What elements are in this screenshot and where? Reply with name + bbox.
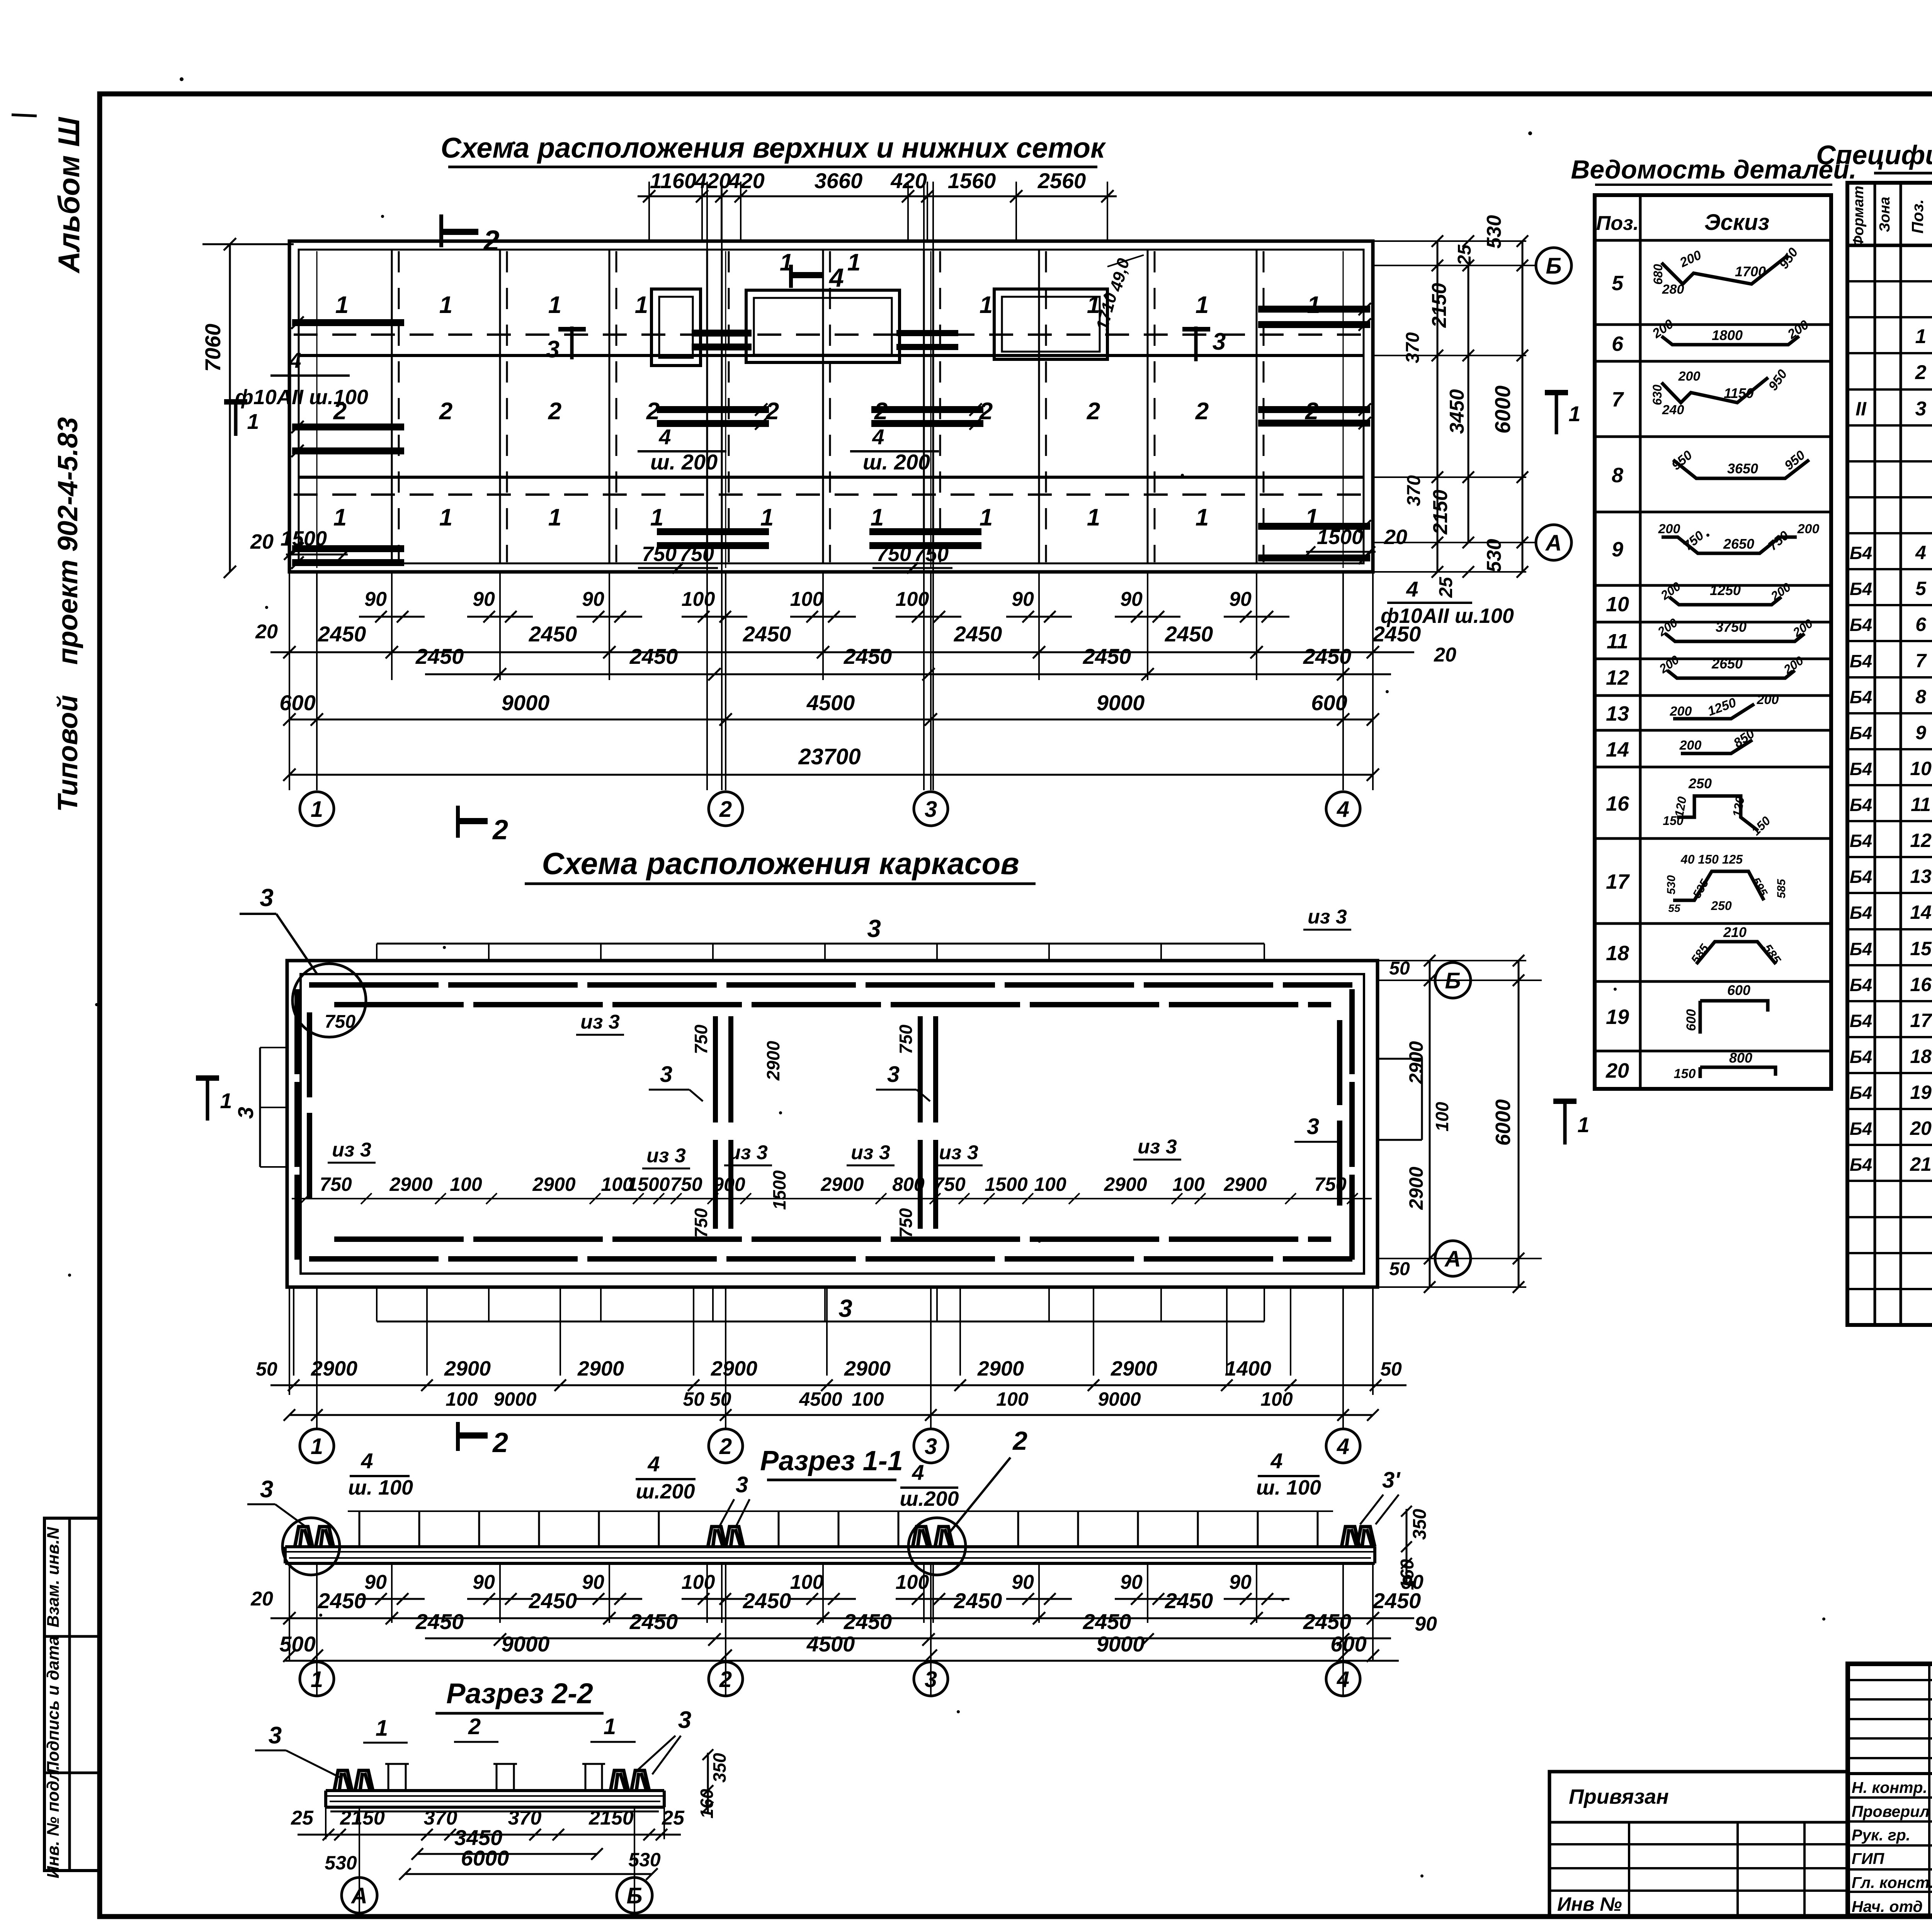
svg-text:Инв №: Инв № (1557, 1893, 1622, 1915)
svg-text:2: 2 (1915, 361, 1927, 384)
svg-text:2900: 2900 (1405, 1041, 1427, 1084)
svg-text:2450: 2450 (743, 1588, 791, 1613)
section mark 2 below plan 2 (456, 1422, 460, 1451)
svg-text:4: 4 (1337, 1434, 1349, 1459)
svg-text:1: 1 (439, 504, 452, 531)
svg-text:200: 200 (1678, 369, 1701, 384)
svg-text:100: 100 (896, 588, 929, 611)
label 3 with T mark right (1194, 327, 1198, 361)
svg-text:1: 1 (1577, 1112, 1589, 1137)
svg-text:600: 600 (1311, 690, 1347, 715)
svg-text:6: 6 (1612, 332, 1624, 355)
svg-text:17: 17 (1910, 1010, 1932, 1031)
section 2-2 chairs (334, 1770, 352, 1791)
svg-text:2450: 2450 (629, 644, 678, 668)
svg-text:4: 4 (289, 348, 301, 372)
svg-text:3: 3 (546, 336, 560, 363)
svg-text:4: 4 (1337, 797, 1349, 822)
svg-text:2: 2 (468, 1714, 481, 1739)
svg-text:2: 2 (492, 1427, 508, 1458)
svg-text:2: 2 (483, 224, 499, 257)
svg-text:4: 4 (1337, 1667, 1349, 1692)
svg-text:2450: 2450 (954, 622, 1002, 646)
svg-text:100: 100 (450, 1173, 482, 1195)
svg-text:2900: 2900 (977, 1357, 1024, 1380)
svg-text:1560: 1560 (948, 168, 996, 193)
plan 1 long division lines at openings (706, 182, 708, 250)
title block ladder rows (1848, 1679, 1932, 1681)
svg-text:Н. контр.: Н. контр. (1852, 1779, 1927, 1796)
svg-text:7: 7 (1915, 650, 1927, 672)
svg-text:3: 3 (867, 915, 881, 942)
svg-text:4: 4 (658, 425, 671, 449)
svg-text:из 3: из 3 (646, 1145, 686, 1167)
svg-text:2150: 2150 (588, 1807, 634, 1829)
svg-text:2450: 2450 (415, 1609, 464, 1634)
svg-text:4: 4 (361, 1449, 373, 1473)
svg-text:2450: 2450 (529, 1588, 577, 1613)
detail circle middle section 1-1 (908, 1518, 966, 1575)
svg-text:из 3: из 3 (851, 1141, 890, 1164)
sketch pos 9 (1662, 537, 1797, 553)
svg-text:90: 90 (364, 1571, 387, 1594)
svg-text:9000: 9000 (502, 690, 550, 715)
right vertical dims 350/160 section 2-2 (707, 1753, 709, 1813)
svg-text:350: 350 (1410, 1509, 1430, 1540)
svg-text:2900: 2900 (1223, 1173, 1267, 1195)
svg-text:1400: 1400 (1225, 1357, 1271, 1380)
svg-text:из 3: из 3 (1138, 1136, 1177, 1158)
svg-text:21: 21 (1910, 1153, 1932, 1175)
svg-text:2450: 2450 (844, 644, 892, 668)
svg-text:750: 750 (914, 543, 949, 566)
svg-text:50 50: 50 50 (683, 1388, 731, 1410)
svg-text:420: 420 (728, 168, 764, 193)
svg-text:1: 1 (847, 249, 861, 276)
svg-text:4500: 4500 (799, 1388, 842, 1410)
svg-text:Б4: Б4 (1850, 903, 1872, 923)
svg-text:2: 2 (439, 398, 452, 425)
svg-text:2: 2 (1012, 1426, 1027, 1456)
svg-text:ш. 100: ш. 100 (1256, 1476, 1321, 1499)
svg-text:8: 8 (1612, 464, 1623, 487)
svg-text:2900: 2900 (311, 1357, 357, 1380)
svg-text:3: 3 (925, 797, 937, 822)
svg-text:600: 600 (1727, 982, 1750, 998)
svg-text:3750: 3750 (1716, 619, 1747, 635)
sketch pos 17 (1673, 871, 1764, 900)
svg-text:Рук. гр.: Рук. гр. (1852, 1826, 1910, 1844)
right wall appendix box (1378, 1058, 1422, 1060)
extension lines section 2-2 (359, 1807, 360, 1913)
svg-text:18: 18 (1910, 1046, 1932, 1067)
dim row 500-9000-4500-9000-600 below section 1-1 (285, 1660, 1399, 1662)
svg-text:Поз.: Поз. (1596, 212, 1639, 235)
sketch pos 14 (1681, 740, 1752, 753)
grid circles 1-4 of plan 1 (300, 792, 334, 826)
rebar bars left edge (292, 319, 404, 326)
svg-text:100: 100 (682, 588, 715, 611)
svg-text:100: 100 (682, 1571, 715, 1594)
dim row 2450 (1) below section 1-1 (270, 1617, 1414, 1619)
svg-text:90: 90 (473, 588, 495, 611)
svg-text:210: 210 (1723, 924, 1747, 940)
svg-text:1: 1 (1307, 292, 1320, 318)
svg-text:150: 150 (1674, 1066, 1696, 1081)
svg-text:2900: 2900 (444, 1357, 491, 1380)
svg-text:20: 20 (250, 530, 274, 553)
grid circle B plan 2 (1435, 963, 1471, 998)
karkas bars partition 1 (713, 1016, 718, 1122)
svg-text:12: 12 (1910, 830, 1932, 851)
svg-text:1: 1 (980, 292, 993, 318)
svg-text:1: 1 (871, 504, 884, 531)
dim row 2450 (2) below section 1-1 (425, 1638, 1391, 1639)
svg-text:17: 17 (1606, 870, 1630, 893)
svg-text:25: 25 (1454, 244, 1475, 266)
section mark 1 right of plan 2 (1553, 1099, 1577, 1104)
svg-text:9000: 9000 (1097, 690, 1145, 715)
section mark 4 top (789, 265, 793, 288)
karkas bars partition 2 (918, 1016, 923, 1122)
svg-text:750: 750 (325, 1012, 355, 1032)
svg-text:2: 2 (492, 815, 508, 845)
section 2-2 slab (326, 1789, 664, 1792)
svg-text:530: 530 (1665, 875, 1678, 895)
svg-text:2900: 2900 (820, 1173, 864, 1195)
sketch pos 13 (1673, 704, 1754, 719)
svg-text:1500: 1500 (627, 1173, 670, 1195)
svg-text:1: 1 (760, 504, 774, 531)
svg-text:Б4: Б4 (1850, 795, 1872, 815)
svg-text:из 3: из 3 (939, 1141, 978, 1164)
svg-text:530: 530 (325, 1852, 357, 1874)
svg-text:90: 90 (582, 588, 604, 611)
karkas bars top row 1 (309, 982, 439, 988)
svg-text:90: 90 (364, 588, 387, 611)
detail circle left end section 1-1 (282, 1518, 340, 1575)
svg-text:50: 50 (1389, 1259, 1410, 1279)
svg-text:18: 18 (1606, 942, 1629, 965)
svg-text:750: 750 (876, 543, 911, 566)
dim row 600-9000-4500-9000-600 below plan 1 (289, 719, 1373, 721)
svg-text:150: 150 (1663, 814, 1684, 828)
left bracket 3 of plan 2 (259, 1048, 261, 1167)
left dim 7060 (202, 243, 294, 245)
svg-text:ш.200: ш.200 (636, 1480, 695, 1503)
svg-text:3: 3 (260, 884, 274, 912)
svg-text:1: 1 (635, 292, 648, 318)
svg-text:2150: 2150 (340, 1807, 385, 1829)
extension lines below plan 2 (316, 1287, 318, 1430)
section mark 1 right of plan 1 (1545, 390, 1568, 395)
svg-text:20: 20 (255, 621, 278, 643)
svg-text:2: 2 (1305, 398, 1318, 425)
svg-text:100: 100 (1172, 1173, 1205, 1195)
svg-text:9: 9 (1915, 722, 1926, 743)
plan 2 inner wall (301, 974, 1364, 1274)
svg-text:750: 750 (691, 1208, 711, 1238)
svg-text:ш.200: ш.200 (900, 1487, 959, 1510)
right vertical dims 350/160 section 1-1 (1406, 1509, 1408, 1582)
svg-text:Б4: Б4 (1850, 1119, 1872, 1139)
svg-text:3': 3' (1382, 1468, 1401, 1493)
svg-text:6000: 6000 (1492, 1099, 1515, 1146)
svg-text:Взам. инв.N: Взам. инв.N (44, 1527, 63, 1628)
svg-text:Б4: Б4 (1850, 975, 1872, 995)
svg-text:Ведомость деталей.: Ведомость деталей. (1571, 155, 1856, 184)
svg-text:1: 1 (311, 1434, 323, 1459)
svg-text:5: 5 (1612, 272, 1624, 295)
svg-text:Формат: Формат (1850, 186, 1867, 247)
svg-text:2450: 2450 (1165, 1588, 1213, 1613)
svg-text:Инв. № подл.: Инв. № подл. (44, 1765, 63, 1878)
sketch pos 8 (1673, 460, 1809, 478)
svg-text:20: 20 (1434, 644, 1456, 666)
svg-text:750: 750 (896, 1024, 916, 1054)
label 3 with T mark left (570, 327, 574, 359)
sketch pos 10 (1669, 597, 1781, 605)
svg-text:370: 370 (1404, 475, 1424, 506)
svg-text:90: 90 (473, 1571, 495, 1594)
plan 1 outer wall (289, 241, 1373, 572)
svg-text:1: 1 (1568, 401, 1580, 426)
svg-text:3: 3 (269, 1722, 282, 1749)
section 2-2 posts (388, 1764, 389, 1791)
title block main frame (1848, 1664, 1932, 1916)
svg-text:90: 90 (1229, 588, 1252, 611)
svg-text:1: 1 (1915, 325, 1927, 348)
karkas bars left wall (294, 989, 300, 1074)
svg-text:1800: 1800 (1712, 327, 1743, 343)
svg-text:750: 750 (670, 1173, 702, 1195)
svg-text:3660: 3660 (815, 168, 863, 193)
svg-text:4: 4 (1915, 542, 1926, 563)
svg-text:ф10АII ш.100: ф10АII ш.100 (235, 386, 368, 409)
svg-text:2450: 2450 (844, 1609, 892, 1634)
svg-text:1150: 1150 (1724, 385, 1753, 401)
svg-text:Нач. отд: Нач. отд (1852, 1898, 1923, 1915)
svg-text:13: 13 (1606, 702, 1629, 725)
svg-text:12: 12 (1606, 666, 1629, 689)
svg-text:2: 2 (979, 398, 993, 425)
plan 1 vertical division lines (391, 250, 393, 563)
svg-text:Гл. конст.: Гл. конст. (1852, 1874, 1932, 1891)
svg-text:9000: 9000 (493, 1388, 536, 1410)
grid circle A section 2-2 (342, 1878, 377, 1913)
svg-text:ГИП: ГИП (1852, 1850, 1885, 1867)
top bracket 3 of plan 2 (377, 943, 1264, 945)
sketch pos 6 (1662, 336, 1799, 345)
svg-text:2450: 2450 (1372, 1588, 1421, 1613)
svg-text:40 150 125: 40 150 125 (1680, 852, 1743, 866)
svg-text:1250: 1250 (1710, 582, 1741, 598)
svg-text:1700: 1700 (1735, 264, 1766, 279)
svg-text:2: 2 (765, 398, 779, 425)
svg-text:2450: 2450 (529, 622, 577, 646)
svg-text:200: 200 (1797, 522, 1820, 536)
svg-text:4500: 4500 (806, 1632, 855, 1656)
svg-text:1500: 1500 (985, 1173, 1027, 1195)
dim row 23700 below plan 1 (289, 774, 1373, 776)
svg-text:1160: 1160 (650, 168, 696, 193)
svg-text:из 3: из 3 (1308, 906, 1347, 928)
svg-text:530: 530 (1483, 539, 1505, 573)
svg-text:1: 1 (247, 409, 259, 434)
svg-text:Б4: Б4 (1850, 1047, 1872, 1067)
svg-text:Б4: Б4 (1850, 1083, 1872, 1103)
svg-text:350: 350 (709, 1753, 730, 1782)
right dim chain of plan 1 (1373, 240, 1526, 242)
sketch pos 18 (1696, 942, 1776, 964)
svg-text:1500: 1500 (769, 1170, 789, 1210)
svg-text:Б4: Б4 (1850, 939, 1872, 959)
svg-text:600: 600 (279, 690, 315, 715)
dim row 2450 (1) below plan 1 (270, 651, 1414, 653)
dim row 9000-4500-9000 with 100s below plan 2 (289, 1414, 1373, 1416)
svg-text:100: 100 (446, 1388, 478, 1410)
svg-text:Б4: Б4 (1850, 831, 1872, 851)
svg-text:4: 4 (647, 1452, 660, 1476)
svg-text:Б: Б (626, 1883, 642, 1908)
karkas bars right wall (1349, 989, 1355, 1074)
svg-text:Б: Б (1546, 253, 1561, 279)
svg-text:1: 1 (1196, 292, 1209, 318)
svg-text:23700: 23700 (798, 744, 861, 769)
svg-text:3: 3 (1213, 328, 1226, 355)
svg-text:500: 500 (279, 1632, 315, 1656)
karkas bars bottom row 1 (334, 1236, 464, 1242)
svg-text:2: 2 (548, 398, 561, 425)
rebar bars near opening A and B at axis (692, 330, 752, 337)
svg-text:750: 750 (320, 1173, 352, 1195)
right dim chain plan 2 (1378, 980, 1542, 981)
svg-text:2450: 2450 (1303, 644, 1352, 668)
svg-text:370: 370 (1403, 332, 1423, 363)
svg-text:250: 250 (1711, 899, 1732, 913)
svg-text:530: 530 (1483, 215, 1505, 249)
svg-text:20: 20 (1384, 526, 1407, 549)
svg-text:Разрез 2-2: Разрез 2-2 (446, 1677, 593, 1709)
section mark 2 top (439, 214, 443, 247)
svg-text:20: 20 (250, 1588, 273, 1610)
svg-text:680: 680 (1651, 264, 1665, 285)
svg-text:750: 750 (1314, 1173, 1347, 1195)
grid circle B plan 1 (1536, 248, 1571, 283)
svg-text:3: 3 (233, 1107, 258, 1119)
svg-text:2450: 2450 (318, 622, 366, 646)
svg-text:2900: 2900 (1104, 1173, 1147, 1195)
svg-text:Эскиз: Эскиз (1704, 210, 1769, 235)
svg-text:370: 370 (508, 1807, 542, 1829)
svg-text:2900: 2900 (844, 1357, 891, 1380)
svg-text:3: 3 (838, 1294, 852, 1322)
svg-text:7060: 7060 (201, 324, 225, 372)
svg-text:Схема расположения верхних: Схема расположения верхних и нижних сето… (441, 132, 1106, 164)
svg-text:Б4: Б4 (1850, 543, 1872, 563)
svg-text:11: 11 (1911, 794, 1931, 815)
rebar bars bottom band middle (657, 528, 769, 535)
svg-text:630: 630 (1650, 384, 1664, 405)
privyazan table (1549, 1772, 1848, 1916)
svg-text:Б4: Б4 (1850, 867, 1872, 887)
svg-text:Б4: Б4 (1850, 687, 1872, 707)
svg-text:А: А (1444, 1247, 1461, 1272)
svg-text:600: 600 (1684, 1009, 1699, 1031)
svg-text:14: 14 (1606, 738, 1629, 761)
svg-text:13: 13 (1910, 866, 1932, 887)
svg-text:90: 90 (1012, 1571, 1034, 1594)
svg-text:Б4: Б4 (1850, 615, 1872, 635)
svg-text:100: 100 (1260, 1388, 1293, 1410)
detail circle top-left of plan 2 (293, 964, 366, 1037)
svg-text:3450: 3450 (1446, 389, 1468, 434)
svg-text:100: 100 (852, 1388, 884, 1410)
svg-text:2900: 2900 (577, 1357, 624, 1380)
svg-text:2450: 2450 (318, 1588, 366, 1613)
svg-text:90: 90 (582, 1571, 604, 1594)
svg-text:3: 3 (887, 1062, 900, 1087)
svg-text:240: 240 (1662, 403, 1684, 417)
svg-text:из 3: из 3 (332, 1139, 371, 1161)
svg-text:50: 50 (1380, 1358, 1402, 1380)
svg-text:750: 750 (933, 1173, 966, 1195)
svg-text:2900: 2900 (711, 1357, 757, 1380)
svg-text:Б4: Б4 (1850, 579, 1872, 599)
svg-text:900: 900 (713, 1173, 745, 1195)
svg-text:2450: 2450 (415, 644, 464, 668)
svg-text:19: 19 (1606, 1005, 1629, 1029)
svg-text:1: 1 (376, 1716, 388, 1741)
svg-text:9000: 9000 (502, 1632, 550, 1656)
svg-text:Зона: Зона (1877, 197, 1893, 232)
svg-text:4: 4 (912, 1460, 924, 1485)
svg-text:15: 15 (1910, 938, 1932, 959)
svg-text:3: 3 (1915, 398, 1927, 420)
sketch pos 11 (1665, 634, 1804, 641)
dim row 2450 (2) below plan 1 (425, 673, 1391, 675)
svg-text:1500: 1500 (1317, 526, 1363, 549)
details table grid (1595, 195, 1831, 1089)
svg-text:1: 1 (311, 797, 323, 822)
svg-text:ш. 100: ш. 100 (348, 1476, 413, 1499)
grid circles 1-4 of plan 2 (300, 1429, 334, 1463)
svg-text:2: 2 (1195, 398, 1209, 425)
svg-text:проект 902-4-5.83: проект 902-4-5.83 (53, 417, 83, 665)
svg-text:250: 250 (1688, 776, 1712, 791)
svg-text:750: 750 (642, 543, 677, 566)
svg-text:280: 280 (1662, 282, 1684, 297)
svg-text:2450: 2450 (629, 1609, 678, 1634)
plan 1 inner wall (299, 250, 1364, 563)
svg-text:3: 3 (925, 1667, 937, 1692)
svg-text:2650: 2650 (1723, 536, 1754, 552)
svg-text:из 3: из 3 (580, 1011, 620, 1033)
svg-text:420: 420 (694, 168, 731, 193)
sketch pos 20 (1700, 1067, 1776, 1078)
spec table grid (1847, 183, 1932, 1325)
svg-text:Б4: Б4 (1850, 723, 1872, 743)
svg-text:800: 800 (1729, 1050, 1752, 1066)
section 1-1 mesh top line and posts (348, 1510, 1333, 1512)
svg-text:55: 55 (1668, 902, 1680, 914)
svg-text:3: 3 (1307, 1114, 1319, 1139)
svg-text:9000: 9000 (1097, 1632, 1145, 1656)
svg-text:90: 90 (1012, 588, 1034, 611)
svg-text:1: 1 (548, 504, 561, 531)
internal dim chain plan 2 (292, 1198, 1372, 1199)
svg-text:750: 750 (691, 1024, 711, 1054)
